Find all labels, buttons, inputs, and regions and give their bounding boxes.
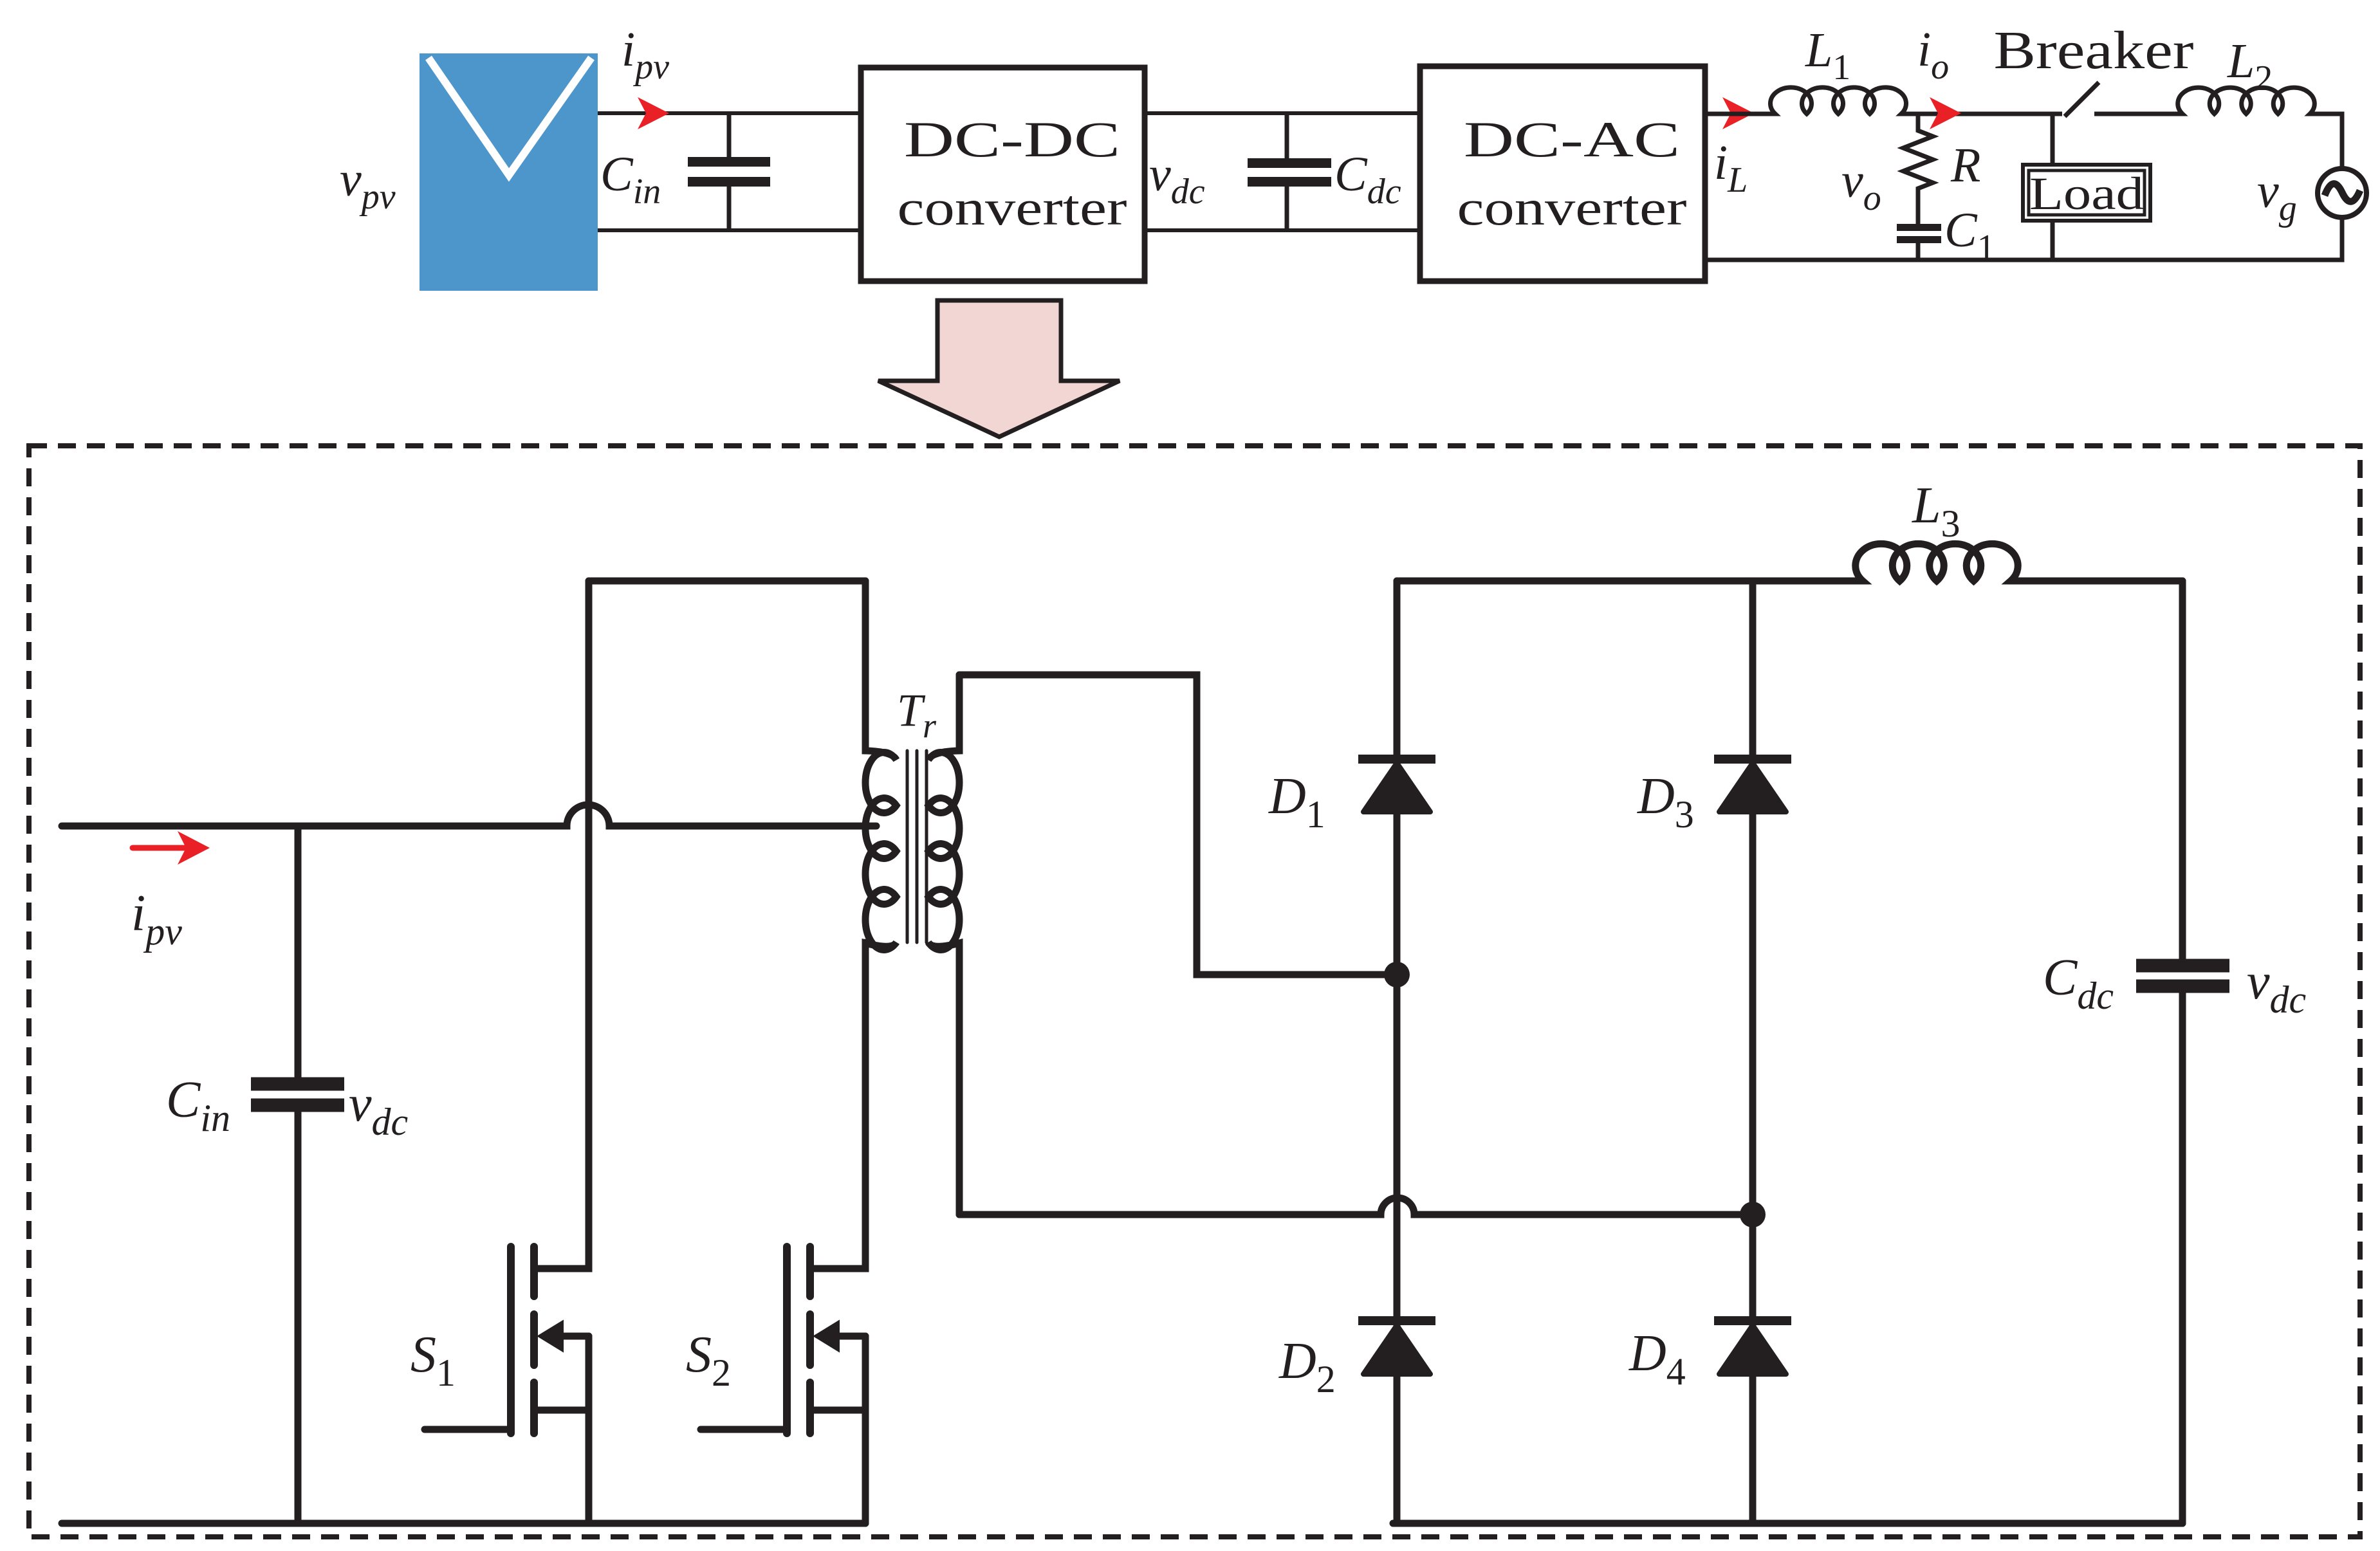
diode leg D1-D2 [1394,581,1401,1523]
MOSFET S2 channel bar [806,1247,814,1433]
bridge top rail with inductor L3 [1397,544,2182,581]
current arrow i_L [1722,97,1754,129]
load branch wires [2051,114,2055,260]
DC-AC converter block [1420,66,1705,281]
DC-DC converter block [861,68,1145,281]
svg-text:ipv: ipv [622,23,669,87]
svg-text:vg: vg [2257,164,2297,228]
svg-text:vpv: vpv [340,152,396,217]
capacitor C1 [1897,228,1941,261]
current arrow i_pv (top) [638,97,669,129]
svg-text:converter: converter [898,179,1127,235]
transformer Tr core [907,751,927,942]
svg-text:converter: converter [1457,179,1687,235]
svg-text:ipv: ipv [131,885,182,953]
transformer Tr secondary winding [928,675,959,1215]
diode D2 [1358,1321,1435,1374]
diode D3 [1714,759,1791,812]
node dot at D3-D4 midpoint [1740,1202,1766,1227]
input wire i_pv with hop over S1 leg [62,805,876,826]
svg-text:D3: D3 [1637,768,1694,836]
svg-text:iL: iL [1714,136,1748,200]
diode leg D3-D4 [1749,581,1757,1523]
bottom rail right circuit [1393,1520,2182,1527]
MOSFET S1 gate bar [507,1247,515,1433]
current arrow i_pv (bottom) [133,831,210,865]
svg-text:L3: L3 [1912,477,1960,545]
MOSFET S1 source lead [538,1336,589,1523]
svg-text:vdc: vdc [1149,147,1205,212]
top-left rail S1 to transformer [589,578,865,585]
MOSFET S2 body arrow [815,1322,865,1350]
svg-text:vdc: vdc [2247,953,2306,1021]
wire PV top to DC-DC [598,111,861,115]
AC source v_g [2318,169,2366,217]
svg-text:Breaker: Breaker [1994,21,2194,80]
svg-text:D1: D1 [1268,768,1325,836]
bottom rail left circuit [62,1520,865,1527]
wire breaker to L2 and inductor L2 [2094,87,2342,169]
svg-text:DC-AC: DC-AC [1464,111,1680,167]
wire PV bottom to DC-DC [598,228,861,232]
svg-text:Cdc: Cdc [2043,950,2114,1017]
svg-text:D2: D2 [1278,1333,1336,1400]
output bottom rail [1705,217,2342,260]
svg-text:Load: Load [2029,168,2144,219]
MOSFET S1 drain leg [538,581,589,1269]
MOSFET S1 body arrow [539,1322,589,1350]
svg-text:L1: L1 [1805,23,1850,87]
svg-text:R: R [1950,138,1980,192]
PV panel [420,53,598,291]
svg-text:D4: D4 [1628,1325,1686,1393]
dashed detail border [29,446,2360,1537]
wire DC-DC top to DC-AC [1145,111,1420,115]
svg-text:vdc: vdc [349,1076,408,1143]
Load box [2023,165,2150,221]
svg-text:io: io [1917,23,1949,87]
diode D1 [1358,759,1435,812]
MOSFET S2 gate lead [701,1426,783,1433]
MOSFET S2 source lead [814,1336,865,1523]
resistor R [1903,113,1933,224]
svg-text:vo: vo [1841,154,1881,218]
MOSFET S2 drain leg [814,942,865,1269]
wire and inductor L1 [1705,87,2062,114]
transformer Tr primary winding [865,581,896,1269]
MOSFET S2 gate bar [783,1247,791,1433]
current arrow i_o [1930,97,1961,129]
MOSFET S1 channel bar [530,1247,538,1433]
svg-text:Tr: Tr [897,684,937,745]
capacitor Cin (bottom) leads [295,826,302,1523]
secondary top connection wire [959,675,1397,975]
MOSFET S1 gate lead [425,1426,507,1433]
capacitor Cin (top) [688,113,770,230]
svg-text:S1: S1 [411,1326,456,1394]
svg-text:Cdc: Cdc [1334,147,1401,212]
wire DC-DC bottom to DC-AC [1145,228,1420,232]
svg-text:Cin: Cin [600,147,661,212]
pink expansion arrow [878,300,1120,437]
capacitor Cdc (bottom) plates [2136,966,2229,986]
capacitor Cin (bottom) plates [251,1084,344,1105]
node dot at D1-D2 midpoint [1384,962,1410,987]
svg-text:S2: S2 [686,1326,731,1394]
diode D4 [1714,1321,1791,1374]
secondary bottom connection wire with hop over D1 leg [959,1198,1753,1215]
right rail [2179,581,2186,1523]
svg-text:DC-DC: DC-DC [904,111,1120,167]
breaker blade [2065,82,2099,116]
capacitor Cdc (top) [1248,113,1331,230]
svg-text:Cin: Cin [166,1072,230,1139]
